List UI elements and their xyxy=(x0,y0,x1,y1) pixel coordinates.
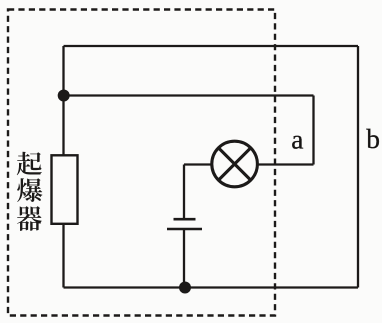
battery positive plate (long) xyxy=(167,228,202,231)
wire: battery top lead xyxy=(183,165,185,220)
wire: right vertical (b lead) xyxy=(357,46,359,288)
junction node (left) xyxy=(58,90,70,102)
label detonator char 2 (bao) xyxy=(17,178,42,202)
svg-text:a: a xyxy=(291,123,303,154)
wire: lamp left lead xyxy=(184,163,212,165)
lamp L1 circle xyxy=(212,141,258,187)
label detonator char 3 (qi4) xyxy=(17,206,42,231)
dashed boundary box xyxy=(8,10,275,316)
wire: left vertical lower xyxy=(62,223,64,288)
wire: a lead vertical drop xyxy=(312,96,314,165)
battery negative plate (short) xyxy=(174,218,196,221)
wire: left vertical upper xyxy=(62,46,64,156)
svg-text:b: b xyxy=(366,123,380,154)
wire: top horizontal xyxy=(64,45,359,47)
lamp L1 cross xyxy=(219,148,251,180)
junction node (bottom) xyxy=(179,282,191,294)
wire: inner horizontal (a lead) xyxy=(64,94,314,96)
detonator (resistor) body xyxy=(52,155,78,224)
wire: bottom horizontal xyxy=(64,286,359,288)
wire: battery bottom lead xyxy=(183,229,185,288)
wire: lamp right lead xyxy=(257,163,314,165)
label detonator char 1 (qi) xyxy=(17,152,42,176)
